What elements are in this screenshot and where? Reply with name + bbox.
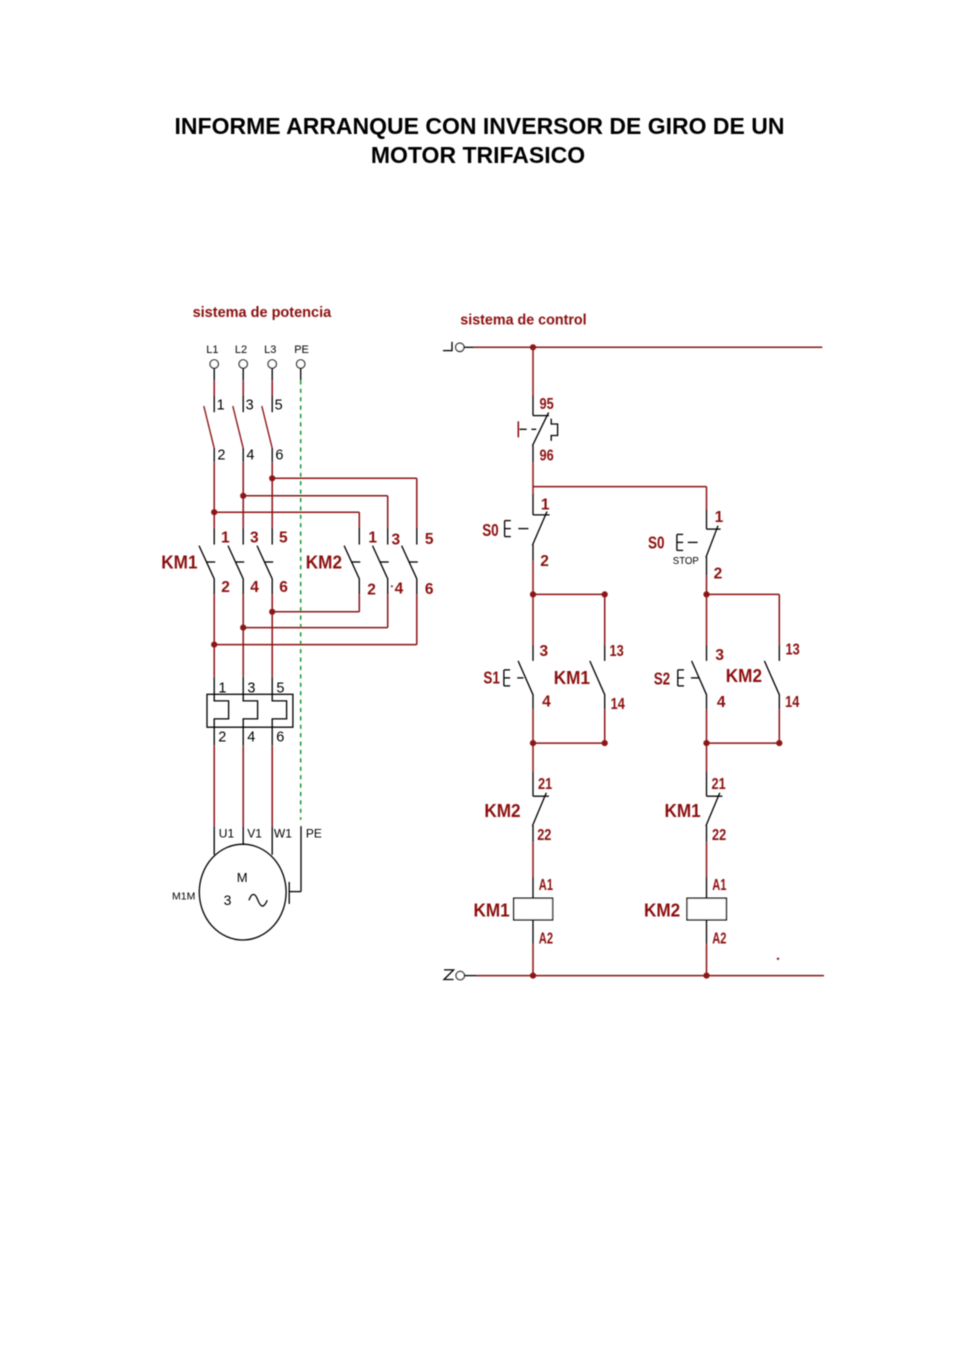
S0 pushbutton actuator <box>505 521 511 537</box>
contactor KM1 main contact pole 2 <box>228 528 244 595</box>
F1 heater element pole 2 <box>243 694 257 727</box>
svg-text:14: 14 <box>785 694 800 711</box>
svg-text:W1: W1 <box>274 826 292 840</box>
svg-text:MOTOR TRIFASICO: MOTOR TRIFASICO <box>371 142 585 168</box>
supply terminal PE circle <box>297 360 305 368</box>
svg-text:1: 1 <box>368 530 377 547</box>
overload relay F1 bottom pin 2 <box>213 727 215 746</box>
motor terminal pin 1 <box>213 826 215 855</box>
svg-text:V1: V1 <box>247 826 262 840</box>
svg-text:3: 3 <box>392 532 401 549</box>
S1 pushbutton actuator <box>504 670 510 686</box>
wire KM1 aux to bottom node <box>604 709 606 743</box>
node junction at (214.2,644.6) <box>211 642 217 648</box>
svg-text:5: 5 <box>425 531 434 548</box>
node junction left branch top <box>530 591 536 597</box>
wire down to KM1 aux contact <box>604 594 606 646</box>
svg-text:4: 4 <box>246 448 254 464</box>
node junction aux bottom <box>602 740 608 746</box>
branch wire to right rail <box>533 487 707 511</box>
PE stub wire <box>300 368 302 380</box>
wire KM2 aux to bottom node <box>778 709 780 743</box>
node junction top rail <box>530 344 536 350</box>
svg-text:1: 1 <box>715 509 724 526</box>
contactor coil KM2 <box>687 898 726 920</box>
svg-text:2: 2 <box>218 730 226 746</box>
svg-text:STOP: STOP <box>673 555 699 567</box>
svg-text:6: 6 <box>279 579 288 596</box>
wire F1 to motor 6 <box>271 746 273 826</box>
contactor KM2 main contact pole 3 <box>402 528 418 595</box>
wire below terminal L1 <box>213 368 215 396</box>
wire top rail to overload contact <box>532 347 534 396</box>
svg-text:1: 1 <box>221 530 230 547</box>
wire F1 to motor 2 <box>213 746 215 826</box>
motor terminal pin 2 <box>242 826 244 845</box>
svg-text:A2: A2 <box>539 930 553 947</box>
svg-text:sistema de control: sistema de control <box>460 313 586 329</box>
svg-text:KM1: KM1 <box>665 801 701 821</box>
contactor coil KM1 <box>514 898 553 920</box>
node junction bottom rail left <box>530 973 536 979</box>
overload relay F1 top pin 5 <box>271 677 273 695</box>
svg-text:3: 3 <box>250 530 259 547</box>
wire S0 STOP to node <box>706 576 708 595</box>
svg-text:4: 4 <box>395 581 404 598</box>
wire node to KM2 interlock <box>532 743 534 773</box>
svg-text:PE: PE <box>294 344 309 356</box>
wire Q1 pole 2 to KM1 <box>242 462 244 528</box>
wire S0 to node <box>532 561 534 594</box>
wire below terminal L2 <box>242 368 244 396</box>
supply terminal L3 circle <box>268 360 276 368</box>
svg-text:22: 22 <box>712 827 726 844</box>
svg-text:6: 6 <box>276 730 284 746</box>
svg-text:4: 4 <box>247 730 255 746</box>
svg-text:A2: A2 <box>712 930 726 947</box>
svg-text:S1: S1 <box>483 667 500 687</box>
svg-text:S2: S2 <box>654 669 671 689</box>
pushbutton S1 NO contact <box>518 645 533 709</box>
svg-text:sistema de potencia: sistema de potencia <box>193 305 333 321</box>
wire F1 96 to S0 <box>532 463 534 495</box>
node junction at (214.2,512.2) <box>211 509 217 515</box>
svg-text:95: 95 <box>540 396 554 413</box>
svg-text:13: 13 <box>610 643 625 660</box>
svg-text:S0: S0 <box>648 533 665 553</box>
svg-text:96: 96 <box>540 448 554 465</box>
motor AC sine symbol <box>249 894 267 906</box>
S0 actuator dashed link <box>518 528 528 530</box>
svg-text:3: 3 <box>224 892 232 908</box>
bottom supply rail N <box>477 975 824 977</box>
svg-text:21: 21 <box>538 776 553 793</box>
svg-text:1: 1 <box>217 398 225 414</box>
wire Q1 pole 3 to KM1 <box>271 462 273 528</box>
contactor KM1 interlock NC contact 21-22 <box>706 772 723 842</box>
disconnect switch Q1 pole 2 <box>233 396 243 463</box>
svg-text:KM1: KM1 <box>474 901 510 921</box>
svg-text:6: 6 <box>275 448 283 464</box>
svg-text:KM2: KM2 <box>726 666 762 686</box>
S2 actuator dashed link <box>691 677 699 679</box>
wire S2 to bottom node <box>706 709 708 743</box>
phase terminal circle L <box>456 343 464 351</box>
S1 actuator dashed link <box>517 677 523 679</box>
crossover wire KM2 column x=359.3 to x=272.2 <box>272 595 359 612</box>
supply terminal L2 circle <box>239 360 247 368</box>
F1 reset bracket symbol <box>551 419 557 441</box>
branch wire to KM2 aux <box>707 594 780 646</box>
svg-text:KM1: KM1 <box>554 668 590 688</box>
branch wire to KM1 aux <box>533 593 605 595</box>
bottom branch wire right parallel <box>707 742 780 744</box>
F1 heater element pole 3 <box>272 694 286 727</box>
PE connection to motor frame <box>289 826 301 904</box>
phase terminal letter L (rotated) <box>443 342 453 351</box>
svg-text:4: 4 <box>250 579 259 596</box>
svg-text:3: 3 <box>715 647 724 664</box>
svg-text:A1: A1 <box>539 877 553 894</box>
wire KM2 interlock to KM1 coil <box>532 842 534 898</box>
pushbutton S0 NC contact <box>532 494 549 561</box>
stray ink dot <box>777 958 779 960</box>
svg-text:2: 2 <box>714 566 723 583</box>
node junction km2 aux bottom <box>776 740 782 746</box>
svg-text:6: 6 <box>425 581 434 598</box>
svg-text:KM2: KM2 <box>306 552 342 572</box>
disconnect switch Q1 pole 3 <box>262 396 272 463</box>
crossover wire KM2 column x=387.7 to x=243.2 <box>243 595 388 628</box>
S0 STOP actuator <box>677 534 683 550</box>
svg-text:4: 4 <box>542 694 551 711</box>
wire KM1 output column x=214.2 down to overload <box>213 595 215 677</box>
svg-text:A1: A1 <box>712 877 726 894</box>
node junction at (272.2,611.8) <box>269 609 275 615</box>
svg-text:INFORME ARRANQUE CON INVERSOR: INFORME ARRANQUE CON INVERSOR DE GIRO DE… <box>175 113 785 139</box>
svg-text:2: 2 <box>367 582 376 599</box>
crossover wire from x=272.2 to KM2 column x=416.8 <box>272 478 417 528</box>
S0 STOP actuator dashed link <box>688 541 698 543</box>
wire node to S1 <box>532 594 534 646</box>
wire KM1 coil to bottom rail <box>532 920 534 976</box>
wire KM1 output column x=243.2 down to overload <box>242 595 244 677</box>
overload relay F1 top pin 1 <box>213 677 215 695</box>
contactor KM2 interlock NC contact 21-22 <box>532 772 549 842</box>
contactor KM2 auxiliary NO contact 13-14 <box>764 645 779 709</box>
neutral terminal circle N <box>456 971 464 979</box>
motor terminal pin 3 <box>271 826 273 855</box>
node junction at (243.2,627.6) <box>240 625 246 631</box>
svg-text:3: 3 <box>540 643 549 660</box>
S2 pushbutton actuator <box>678 670 684 686</box>
supply terminal L1 circle <box>210 360 218 368</box>
wire Q1 pole 1 to KM1 <box>213 462 215 528</box>
stray speck near KM2 number 4 <box>391 585 393 587</box>
node junction right bottom <box>703 740 709 746</box>
F1 heater element pole 1 <box>214 694 228 727</box>
svg-text:3: 3 <box>246 398 254 414</box>
overload relay F1 top pin 3 <box>242 677 244 695</box>
wire KM1 output column x=272.2 down to overload <box>271 595 273 677</box>
svg-text:PE: PE <box>306 826 322 840</box>
svg-text:M1M: M1M <box>172 891 195 903</box>
svg-text:KM2: KM2 <box>644 901 680 921</box>
bottom branch wire left parallel <box>533 742 605 744</box>
motor M1M body circle <box>199 844 286 940</box>
pushbutton S0 STOP NC contact <box>706 510 721 576</box>
node junction at (243.2,495.8) <box>240 493 246 499</box>
svg-text:2: 2 <box>217 448 225 464</box>
svg-text:14: 14 <box>611 696 626 713</box>
crossover wire KM2 column x=416.8 to x=214.2 <box>214 595 417 645</box>
svg-text:L2: L2 <box>235 344 247 356</box>
wire node to KM1 interlock <box>706 743 708 773</box>
wire KM2 coil to bottom rail <box>706 920 708 976</box>
node junction bottom rail right <box>703 973 709 979</box>
svg-text:1: 1 <box>541 497 550 514</box>
overload relay F1 body box <box>207 694 293 727</box>
neutral terminal letter N (rotated) <box>444 970 454 980</box>
svg-text:4: 4 <box>717 694 726 711</box>
contactor KM1 main contact pole 3 <box>257 528 273 595</box>
svg-text:22: 22 <box>537 827 551 844</box>
svg-text:13: 13 <box>786 642 801 659</box>
svg-text:KM2: KM2 <box>484 801 520 821</box>
PE green dashed conductor <box>300 380 302 820</box>
svg-text:L1: L1 <box>206 344 218 356</box>
disconnect switch Q1 pole 1 <box>204 396 214 463</box>
contactor KM1 auxiliary NO contact 13-14 <box>590 645 605 709</box>
svg-text:KM1: KM1 <box>161 552 197 572</box>
node junction right branch top <box>703 591 709 597</box>
overload relay F1 bottom pin 6 <box>271 727 273 746</box>
wire below terminal L3 <box>271 368 273 396</box>
svg-text:21: 21 <box>712 776 727 793</box>
top rail stub (black) <box>464 346 474 348</box>
svg-text:2: 2 <box>540 553 549 570</box>
svg-text:U1: U1 <box>219 826 235 840</box>
wire S1 to bottom node <box>532 709 534 743</box>
node junction aux branch top <box>602 591 608 597</box>
top supply rail L <box>474 346 822 348</box>
wire node to S2 <box>706 594 708 646</box>
bottom rail stub (black) <box>465 975 477 977</box>
svg-text:S0: S0 <box>482 520 499 540</box>
crossover wire from x=243.2 to KM2 column x=387.7 <box>243 496 388 528</box>
node junction at (272.2,478.3) <box>269 475 275 481</box>
pushbutton S2 NO contact <box>692 645 707 709</box>
F1 trip actuator bar <box>517 421 519 437</box>
contactor KM2 main contact pole 2 <box>373 528 389 595</box>
contactor KM1 main contact pole 1 <box>199 528 215 595</box>
overload relay F1 bottom pin 4 <box>242 727 244 746</box>
crossover wire from x=214.2 to KM2 column x=359.3 <box>214 512 359 528</box>
contactor KM2 main contact pole 1 <box>344 528 360 595</box>
wire F1 to motor 4 <box>242 746 244 826</box>
svg-text:5: 5 <box>275 398 283 414</box>
svg-text:2: 2 <box>221 579 230 596</box>
svg-text:M: M <box>237 870 248 885</box>
overload trip contact F1 95-96 <box>532 396 549 463</box>
svg-text:L3: L3 <box>264 344 276 356</box>
F1 trip actuator dashed link <box>520 428 537 430</box>
node junction left bottom <box>530 740 536 746</box>
wire KM1 interlock to KM2 coil <box>706 842 708 898</box>
svg-text:5: 5 <box>279 530 288 547</box>
